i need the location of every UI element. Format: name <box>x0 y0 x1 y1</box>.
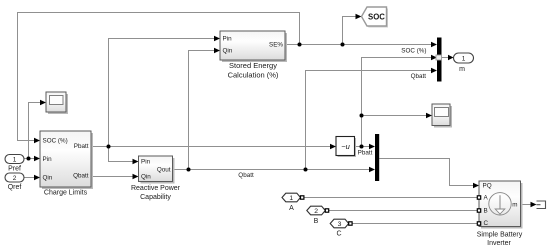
wire port B to inverter B <box>329 210 477 212</box>
wire gain output riser to mux1 input 2 <box>362 58 432 147</box>
svg-text:B: B <box>484 208 488 215</box>
scope block Scope1 <box>46 92 68 114</box>
junction on SE% line at x=299.5 <box>298 43 302 47</box>
arrowhead into mux1 input 3 <box>431 68 437 74</box>
svg-text:C: C <box>336 230 341 237</box>
svg-text:Reactive Power: Reactive Power <box>131 185 181 192</box>
arrowhead into mux2 input 1 <box>369 144 375 150</box>
arrowhead into SOC goto tag <box>356 14 362 20</box>
svg-text:−u: −u <box>341 142 350 151</box>
svg-text:Qin: Qin <box>43 175 53 182</box>
wire branch to scope2 <box>362 115 427 117</box>
arrowhead into terminator <box>531 202 537 208</box>
arrowhead into outport m <box>448 55 454 61</box>
junction gain output branch <box>360 145 364 149</box>
junction Pbatt branch <box>107 145 111 149</box>
svg-text:Capability: Capability <box>140 194 171 201</box>
wire SOC feedback: SE% output to mux1 input 1 <box>285 44 431 46</box>
svg-text:B: B <box>314 218 319 225</box>
mux2 (bus to inverter PQ) <box>375 134 379 181</box>
svg-text:Pbatt: Pbatt <box>74 143 89 150</box>
svg-text:m: m <box>512 202 517 209</box>
svg-text:Qin: Qin <box>141 174 151 181</box>
junction scope2 branch <box>360 114 364 118</box>
wire Pbatt riser up to Stored Energy Pin <box>109 39 215 147</box>
svg-text:C: C <box>484 220 489 227</box>
svg-text:1: 1 <box>13 156 17 163</box>
junction Qout branch at x=188.5 <box>187 168 191 172</box>
port square inverter B <box>477 209 480 212</box>
arrowhead into mux1 input 1 <box>431 42 437 48</box>
mux1 (bus to outport m) <box>437 38 442 82</box>
subsystem Reactive Power Capability <box>131 156 181 201</box>
wire gain output to mux2 input 1 <box>355 146 370 148</box>
subsystem Charge Limits <box>40 131 93 197</box>
wire mux1 output to outport m <box>442 57 449 59</box>
svg-text:PQ: PQ <box>483 183 492 190</box>
svg-text:m: m <box>459 66 465 73</box>
arrowhead into inverter PQ <box>473 183 479 189</box>
svg-text:Qbatt: Qbatt <box>238 172 254 179</box>
svg-text:Pref: Pref <box>8 165 21 172</box>
svg-text:Pbatt: Pbatt <box>358 150 373 157</box>
wire Pref branch up to scope1 <box>29 103 41 159</box>
port square inverter A <box>477 196 480 199</box>
svg-text:Charge Limits: Charge Limits <box>44 190 88 197</box>
svg-text:Qref: Qref <box>8 184 22 191</box>
junction on SE% line at x=342.5 <box>341 43 345 47</box>
svg-text:SOC: SOC <box>368 12 385 21</box>
wire Qbatt: Charge Limits to Reactive Power Qin <box>91 176 133 178</box>
wire Qout riser to Stored Energy Qin <box>189 51 215 170</box>
wire mux2 output to inverter PQ <box>379 159 473 186</box>
inport Qref <box>5 173 24 191</box>
arrowhead into Stored Energy Qin <box>214 48 220 54</box>
svg-text:2: 2 <box>13 175 17 182</box>
goto tag SOC <box>362 7 389 28</box>
terminator on inverter m output <box>537 201 546 209</box>
svg-text:Qbatt: Qbatt <box>73 173 89 180</box>
wire SOC feedback riser to top and back to Charge Limits SOC input <box>18 13 300 141</box>
arrowhead into Charge Limits Pin <box>34 156 40 162</box>
arrowhead into Reactive Power Qin <box>133 174 139 180</box>
svg-text:Simple Battery: Simple Battery <box>477 232 523 239</box>
svg-text:SOC (%): SOC (%) <box>43 138 68 145</box>
arrowhead into Charge Limits Qin <box>34 175 40 181</box>
svg-text:Qin: Qin <box>223 48 233 55</box>
connection port 1 (A) hexagon <box>282 193 304 212</box>
svg-text:Qout: Qout <box>157 167 171 174</box>
port square inverter C <box>477 222 480 225</box>
svg-text:Inverter: Inverter <box>487 240 511 247</box>
block Simple Battery Inverter <box>477 181 523 247</box>
svg-text:SE%: SE% <box>269 42 283 49</box>
inport Pref <box>5 155 24 173</box>
connection port 3 (C) hexagon <box>330 219 352 237</box>
mux1 output anchor square <box>436 55 442 60</box>
wire port A to inverter A <box>304 197 477 199</box>
gain block -u <box>336 137 356 158</box>
svg-text:A: A <box>289 205 294 212</box>
svg-text:Pin: Pin <box>141 159 151 166</box>
svg-text:Stored Energy: Stored Energy <box>229 61 277 70</box>
wire Qref to Charge Limits Qin <box>24 177 34 179</box>
arrowhead into Reactive Power Pin <box>133 159 139 165</box>
svg-text:2: 2 <box>314 208 318 215</box>
wire inverter m to terminator <box>521 204 531 206</box>
junction Qout branch at x=305.5 <box>304 168 308 172</box>
wire Pbatt: Charge Limits to gain -u <box>91 146 330 148</box>
connection port 2 (B) hexagon <box>307 206 329 225</box>
svg-text:SOC (%): SOC (%) <box>401 48 426 55</box>
arrowhead into mux2 input 2 <box>369 167 375 173</box>
svg-text:Calculation (%): Calculation (%) <box>228 70 279 79</box>
wire branch to SOC goto tag <box>343 17 356 45</box>
svg-text:Qbatt: Qbatt <box>411 73 427 80</box>
arrowhead into gain <box>330 144 336 150</box>
wire Qout: Reactive Power to mux2 input 2 <box>173 169 370 171</box>
junction Pref branch <box>27 157 31 161</box>
svg-text:1: 1 <box>462 55 466 62</box>
scope block Scope2 <box>432 104 452 128</box>
outport m (oval 1) <box>454 53 474 73</box>
arrowhead into Charge Limits SOC input <box>34 138 40 144</box>
wire port C to inverter C <box>352 223 477 225</box>
arrowhead into Stored Energy Pin <box>214 36 220 42</box>
wire Qout riser to mux1 input 3 <box>306 71 432 170</box>
arrowhead into scope2 <box>426 113 432 119</box>
svg-text:Pin: Pin <box>43 156 53 163</box>
arrowhead into scope1 <box>40 100 46 106</box>
svg-text:1: 1 <box>289 195 293 202</box>
wire Pref to Charge Limits Pin <box>24 158 34 160</box>
arrowhead into mux1 input 2 <box>431 55 437 61</box>
svg-text:3: 3 <box>338 221 342 228</box>
subsystem Stored Energy Calculation (%) <box>220 31 287 79</box>
wire Pbatt drop to Reactive Power Pin <box>109 147 133 162</box>
svg-text:Pin: Pin <box>223 36 233 43</box>
